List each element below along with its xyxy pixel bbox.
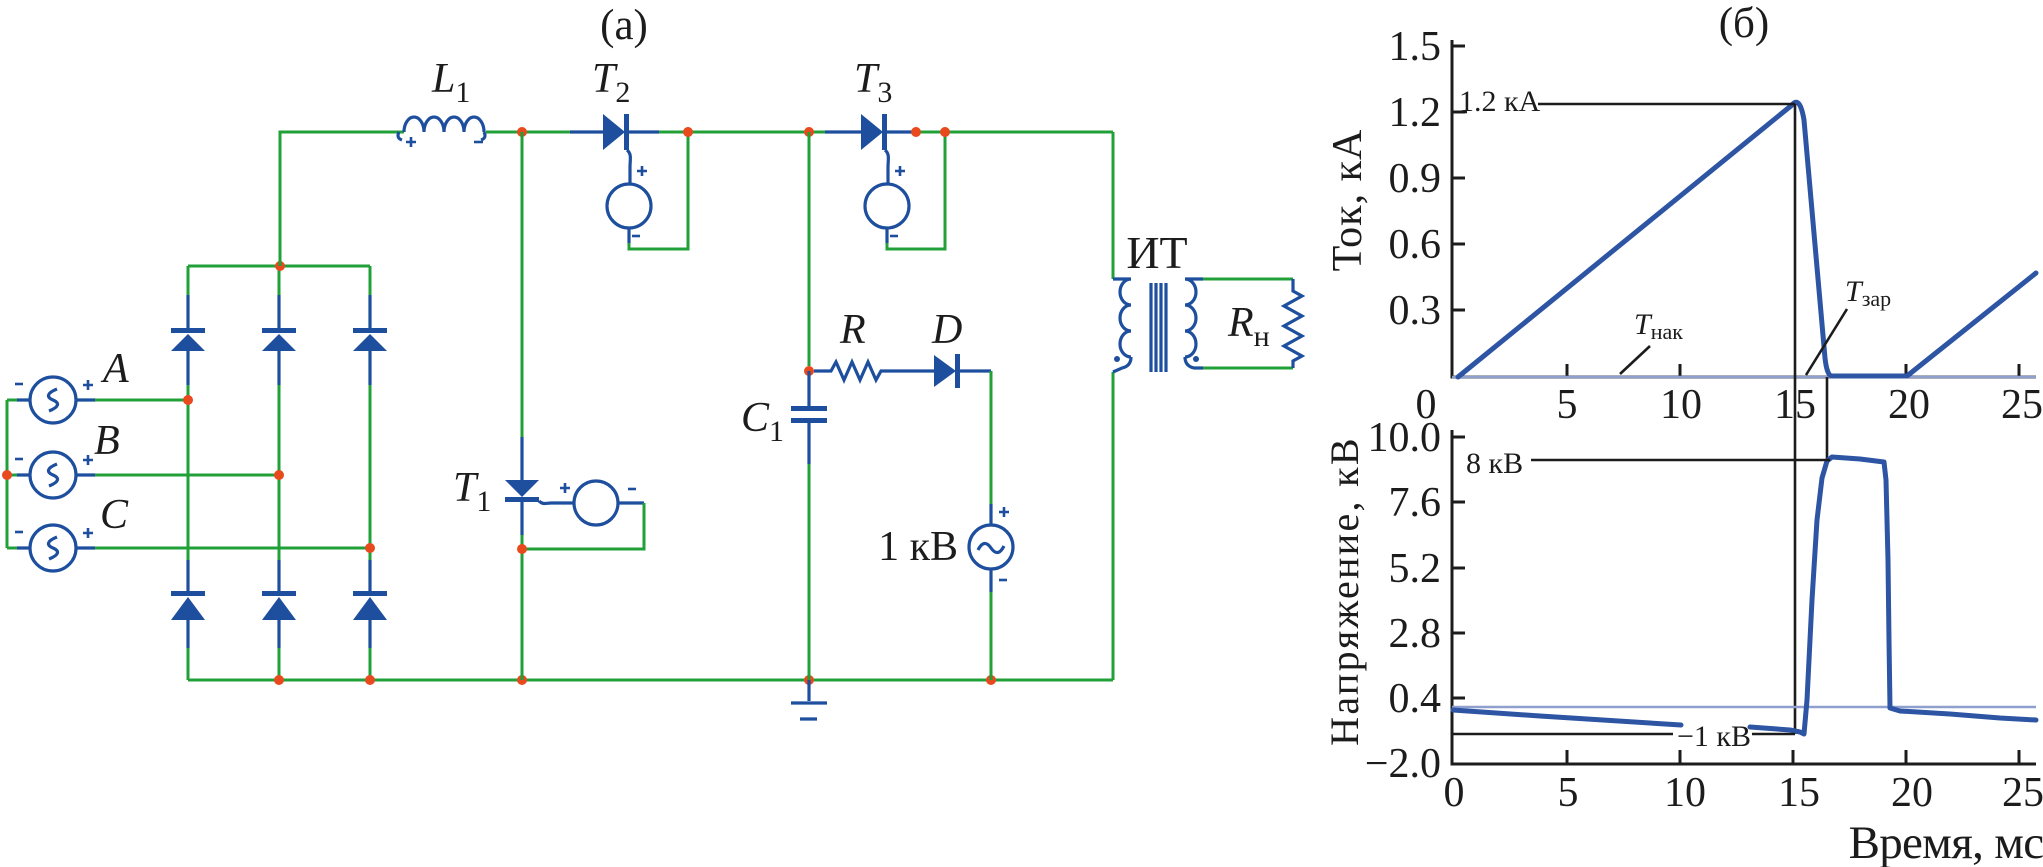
svg-text:C1: C1 xyxy=(741,395,784,448)
svg-text:T1: T1 xyxy=(453,465,491,518)
svg-text:20: 20 xyxy=(1888,382,1930,428)
svg-text:0.4: 0.4 xyxy=(1389,676,1442,722)
annotation vertical line peak xyxy=(1794,104,1797,734)
svg-text:Tнак: Tнак xyxy=(1634,308,1683,344)
resistor R xyxy=(814,362,934,380)
svg-text:(б): (б) xyxy=(1719,0,1770,47)
annotation vertical line charge end xyxy=(1826,377,1829,460)
axis title time xyxy=(1849,817,2043,867)
label L1 xyxy=(431,56,470,109)
gate source of T2 xyxy=(607,166,651,243)
svg-text:T3: T3 xyxy=(854,56,892,109)
node T3 return xyxy=(940,127,950,137)
label T zar xyxy=(1806,275,1891,375)
diode upper leg2 xyxy=(262,295,296,385)
voltage curve xyxy=(1453,457,2036,734)
svg-text:8 кВ: 8 кВ xyxy=(1466,447,1523,480)
diode upper leg1 xyxy=(171,295,205,385)
node bus C1 xyxy=(804,675,814,685)
axis title voltage xyxy=(1322,436,1367,746)
thyristor T3 xyxy=(825,114,912,184)
svg-text:C: C xyxy=(100,492,129,538)
ac source C xyxy=(15,525,95,571)
svg-text:D: D xyxy=(931,307,962,353)
label T2 xyxy=(592,56,630,109)
svg-text:R: R xyxy=(839,307,866,353)
top chart zero line xyxy=(1452,376,2036,379)
svg-text:10.0: 10.0 xyxy=(1368,415,1442,461)
annotation -1 kV xyxy=(1452,720,1795,753)
svg-text:1.5: 1.5 xyxy=(1389,24,1442,70)
svg-text:Rн: Rн xyxy=(1227,300,1270,353)
label R xyxy=(839,307,866,353)
wire top rail xyxy=(280,132,1113,279)
diode upper leg3 xyxy=(353,295,387,385)
label C1 xyxy=(741,395,784,448)
svg-text:5: 5 xyxy=(1558,770,1579,816)
node bus leg3 xyxy=(365,675,375,685)
node C1 R junction xyxy=(804,366,814,376)
svg-text:20: 20 xyxy=(1891,770,1933,816)
diode D xyxy=(934,354,991,388)
wire T2 gate return xyxy=(629,132,688,249)
node phase A junction xyxy=(183,395,193,405)
svg-text:10: 10 xyxy=(1664,770,1706,816)
wire source 1kV branch xyxy=(990,371,993,680)
svg-text:−1 кВ: −1 кВ xyxy=(1677,720,1751,753)
node T1 return xyxy=(517,544,527,554)
inductor L1 xyxy=(398,117,485,147)
svg-text:2.8: 2.8 xyxy=(1389,611,1442,657)
top chart axes xyxy=(1452,40,2036,377)
wire C1 branch xyxy=(808,132,811,680)
svg-text:Время, мс: Время, мс xyxy=(1849,817,2043,867)
ac source A xyxy=(15,377,95,423)
title (b) xyxy=(1719,0,1770,47)
bottom chart axes xyxy=(1452,430,2036,764)
label T1 xyxy=(453,465,491,518)
node top bus junction xyxy=(275,261,285,271)
svg-text:0.3: 0.3 xyxy=(1389,288,1442,334)
svg-text:1.2: 1.2 xyxy=(1389,90,1442,136)
label IT xyxy=(1126,227,1187,278)
node bus leg2 xyxy=(274,675,284,685)
axis title current xyxy=(1325,129,1371,272)
wire phase A xyxy=(95,399,188,402)
svg-text:(а): (а) xyxy=(600,2,648,49)
svg-text:0.9: 0.9 xyxy=(1389,156,1442,202)
gate source of T3 xyxy=(865,166,909,243)
wire secondary to load xyxy=(1203,279,1293,368)
top chart x tick labels xyxy=(1416,382,2043,428)
title (a) xyxy=(600,2,648,49)
label B xyxy=(94,418,120,464)
label T3 xyxy=(854,56,892,109)
wire T1 gate return xyxy=(522,503,644,549)
svg-text:A: A xyxy=(100,346,129,392)
capacitor C1 xyxy=(791,371,827,464)
svg-text:5.2: 5.2 xyxy=(1389,546,1442,592)
ground xyxy=(791,680,827,719)
svg-text:5: 5 xyxy=(1557,382,1578,428)
current curve xyxy=(1458,102,2036,377)
svg-text:1 кВ: 1 кВ xyxy=(878,524,958,570)
wire left bus xyxy=(7,400,17,548)
label 1 kV xyxy=(878,524,958,570)
wire bridge mid legs xyxy=(188,385,370,560)
node phase B junction xyxy=(274,470,284,480)
wire T1 branch xyxy=(521,132,524,680)
label A xyxy=(100,346,129,392)
node top rail C1 branch xyxy=(804,127,814,137)
node top rail T1 branch xyxy=(517,127,527,137)
label D xyxy=(931,307,962,353)
label C xyxy=(100,492,129,538)
svg-text:−2.0: −2.0 xyxy=(1365,741,1441,787)
wire phase B xyxy=(95,474,279,477)
svg-text:ИТ: ИТ xyxy=(1126,227,1187,278)
svg-text:Tзар: Tзар xyxy=(1845,275,1891,311)
svg-text:L1: L1 xyxy=(431,56,470,109)
svg-text:15: 15 xyxy=(1778,770,1820,816)
thyristor T1 xyxy=(505,437,574,535)
ac source B xyxy=(15,452,95,498)
svg-text:T2: T2 xyxy=(592,56,630,109)
node bus source1kV xyxy=(986,675,996,685)
source 1 kV xyxy=(969,504,1013,592)
diode lower leg1 xyxy=(171,560,205,648)
node phase C junction xyxy=(365,543,375,553)
label Rn xyxy=(1227,300,1270,353)
svg-text:10: 10 xyxy=(1660,382,1702,428)
svg-text:0.6: 0.6 xyxy=(1389,222,1442,268)
thyristor T2 xyxy=(570,114,659,184)
bottom chart x tick labels xyxy=(1444,770,2043,816)
node left bus B junction xyxy=(2,470,12,480)
annotation 8 kV xyxy=(1466,447,1830,480)
svg-text:0: 0 xyxy=(1444,770,1465,816)
resistor Rn xyxy=(1284,279,1302,368)
svg-text:7.6: 7.6 xyxy=(1389,480,1442,526)
gate source of T1 xyxy=(560,481,644,525)
top chart y tick labels xyxy=(1389,24,1442,334)
annotation 1.2 kA xyxy=(1452,85,1795,118)
wire bridge top bus xyxy=(188,266,370,295)
node after T3 xyxy=(911,127,921,137)
diode lower leg2 xyxy=(262,560,296,648)
wire phase C xyxy=(95,547,370,550)
svg-text:25: 25 xyxy=(2002,770,2043,816)
wire T3 gate return xyxy=(887,132,945,249)
diode lower leg3 xyxy=(353,560,387,648)
node bus T1 xyxy=(517,675,527,685)
svg-text:25: 25 xyxy=(2001,382,2043,428)
svg-text:B: B xyxy=(94,418,120,464)
bottom chart y tick labels xyxy=(1365,415,1441,787)
label T nak xyxy=(1620,308,1683,374)
node T2 return xyxy=(683,127,693,137)
bottom chart zero line xyxy=(1452,706,2036,709)
svg-text:Напряжение, кВ: Напряжение, кВ xyxy=(1322,436,1367,746)
svg-text:Ток, кА: Ток, кА xyxy=(1325,129,1371,272)
transformer IT xyxy=(1113,279,1203,372)
svg-text:1.2 кА: 1.2 кА xyxy=(1459,85,1541,118)
wire bottom bus xyxy=(188,372,1113,680)
